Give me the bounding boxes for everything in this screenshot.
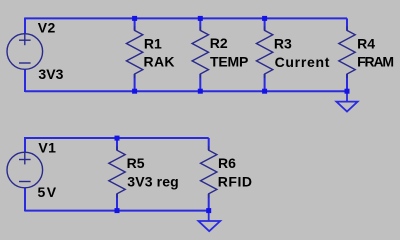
- ground bottom circuit: [198, 211, 220, 232]
- resistor R1: [126, 27, 142, 79]
- junction R1 bottom: [132, 89, 137, 94]
- junction R1 top: [132, 16, 137, 21]
- resistor R6: [201, 146, 217, 198]
- svg-text:FRAM: FRAM: [357, 54, 394, 70]
- wire R1 top lead: [134, 18, 136, 30]
- svg-text:V1: V1: [38, 140, 56, 156]
- wire R2 top lead: [199, 18, 201, 30]
- svg-text:R6: R6: [218, 155, 236, 171]
- wire V2 bottom lead: [24, 69, 26, 92]
- svg-text:V2: V2: [38, 20, 56, 36]
- resistor R4: [339, 27, 355, 79]
- junction R5 bottom: [115, 208, 120, 213]
- wire R6 top drop: [208, 138, 210, 150]
- svg-text:3V3: 3V3: [38, 66, 63, 82]
- wire R1 bottom lead: [134, 74, 136, 91]
- wire R5 bottom lead: [116, 194, 118, 211]
- wire top bus net 3V3: [25, 17, 347, 19]
- wire R3 top lead: [264, 18, 266, 30]
- wire V1 bottom lead: [24, 188, 26, 212]
- svg-text:R4: R4: [357, 35, 375, 51]
- wire V2 top lead: [24, 18, 26, 35]
- svg-text:3V3 reg: 3V3 reg: [127, 174, 178, 190]
- junction R6 bottom / ground: [206, 208, 211, 213]
- svg-text:5V: 5V: [38, 184, 57, 200]
- junction R3 top: [262, 16, 267, 21]
- junction R3 bottom: [262, 89, 267, 94]
- wire R3 bottom lead: [264, 74, 266, 91]
- wire top bus circuit 2 net 5V: [25, 137, 209, 139]
- wire R4 bottom lead: [346, 74, 348, 91]
- svg-text:R2: R2: [210, 35, 228, 51]
- wire R6 bottom lead: [208, 194, 210, 211]
- wire bottom bus circuit 2: [25, 210, 209, 212]
- junction R4 bottom / ground: [345, 89, 350, 94]
- resistor R2: [192, 27, 208, 79]
- junction R2 bottom: [198, 89, 203, 94]
- svg-text:R1: R1: [144, 35, 162, 51]
- svg-text:Current: Current: [275, 54, 330, 70]
- wire V1 top lead: [24, 137, 26, 152]
- resistor R3: [256, 27, 272, 79]
- wire R4 top drop: [346, 18, 348, 30]
- voltage source V2: [7, 34, 43, 70]
- wire R5 top lead: [116, 138, 118, 150]
- wire bottom bus circuit 1: [25, 90, 347, 92]
- junction R2 top: [198, 16, 203, 21]
- svg-text:R5: R5: [127, 155, 145, 171]
- svg-text:R3: R3: [274, 35, 292, 51]
- resistor R5: [109, 146, 125, 198]
- junction R5 top: [115, 136, 120, 141]
- svg-text:RAK: RAK: [144, 54, 175, 70]
- ground top circuit: [336, 91, 357, 111]
- voltage source V1: [7, 152, 43, 188]
- svg-text:TEMP: TEMP: [210, 54, 248, 70]
- svg-text:RFID: RFID: [218, 174, 252, 190]
- wire R2 bottom lead: [199, 74, 201, 91]
